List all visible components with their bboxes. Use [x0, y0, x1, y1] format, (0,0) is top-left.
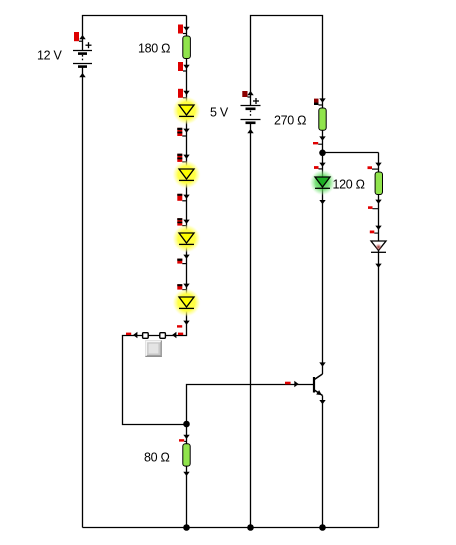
current arrow: [79, 35, 85, 39]
junction: [319, 150, 326, 157]
current marker: [179, 439, 187, 441]
svg-text:5 V: 5 V: [210, 105, 229, 119]
current arrow: [319, 136, 325, 140]
svg-text:120 Ω: 120 Ω: [333, 178, 365, 192]
current marker: [177, 284, 186, 289]
current arrow: [183, 220, 189, 224]
wire: [186, 425, 188, 528]
current marker: [313, 142, 323, 144]
LED D2: [172, 160, 200, 188]
current marker: [368, 166, 379, 169]
current marker: [314, 166, 323, 169]
current marker: [177, 154, 186, 162]
resistor R2 270: [319, 108, 326, 130]
current arrow: [183, 65, 189, 69]
wire: [322, 396, 324, 528]
push button: [146, 341, 162, 357]
LED D1: [172, 96, 200, 124]
current arrow: [375, 264, 381, 268]
current marker: [177, 218, 186, 225]
current arrow: [79, 73, 85, 77]
resistor R1 180: [183, 36, 191, 59]
current arrow: [133, 332, 137, 338]
current arrow: [319, 362, 325, 366]
current arrow: [375, 163, 381, 167]
current arrow: [183, 284, 189, 288]
current arrow: [183, 255, 189, 259]
current marker: [314, 99, 323, 105]
wire: [378, 153, 380, 528]
svg-text:80 Ω: 80 Ω: [144, 451, 170, 465]
current arrow: [172, 332, 176, 338]
current arrow: [375, 200, 381, 204]
current arrow: [183, 155, 189, 159]
wire: [322, 130, 324, 374]
junction: [247, 524, 254, 531]
current arrow: [294, 381, 298, 387]
current arrow: [183, 435, 189, 439]
wire: [187, 385, 315, 425]
current arrow: [183, 472, 189, 476]
diode D6: [371, 241, 386, 252]
current arrow: [183, 321, 189, 325]
resistor R3 120: [375, 172, 382, 195]
current marker: [178, 25, 187, 34]
svg-text:180 Ω: 180 Ω: [138, 42, 170, 56]
current marker: [368, 206, 379, 209]
current marker: [177, 259, 186, 264]
current marker: [242, 91, 250, 97]
wire: [82, 66, 84, 528]
current marker: [178, 62, 187, 71]
current arrow: [319, 200, 325, 204]
LED D4: [172, 288, 200, 316]
battery B2 5 V: [241, 98, 261, 123]
current arrow: [183, 91, 189, 95]
svg-text:12 V: 12 V: [37, 49, 62, 63]
svg-text:270 Ω: 270 Ω: [274, 114, 306, 128]
wire: [323, 152, 379, 154]
current arrow: [183, 195, 189, 199]
LED D3: [172, 224, 200, 252]
junction: [183, 421, 190, 428]
current arrow: [247, 91, 253, 95]
current arrow: [319, 400, 325, 404]
current marker: [177, 194, 186, 201]
battery B1 12 V: [73, 42, 92, 66]
transistor Q1: [314, 374, 323, 396]
LED D5 green: [310, 170, 336, 196]
switch SW1: [143, 333, 166, 339]
current marker: [126, 333, 131, 335]
current marker: [370, 231, 379, 234]
current arrow: [319, 98, 325, 102]
wire: [250, 122, 252, 528]
current marker: [285, 382, 291, 385]
current marker: [178, 333, 183, 335]
junction: [183, 524, 190, 531]
current marker: [177, 325, 182, 327]
current arrow: [183, 129, 189, 133]
wire: [251, 16, 323, 109]
current marker: [178, 89, 187, 98]
current marker: [74, 32, 83, 41]
junction: [319, 524, 326, 531]
current marker: [177, 128, 186, 136]
bottom wire: [83, 527, 379, 529]
wire: [83, 16, 187, 52]
current arrow: [375, 226, 381, 230]
wire: [123, 16, 187, 425]
current arrow: [183, 27, 189, 31]
resistor R4 80: [183, 444, 190, 466]
current arrow: [319, 163, 325, 167]
current arrow: [247, 129, 253, 133]
